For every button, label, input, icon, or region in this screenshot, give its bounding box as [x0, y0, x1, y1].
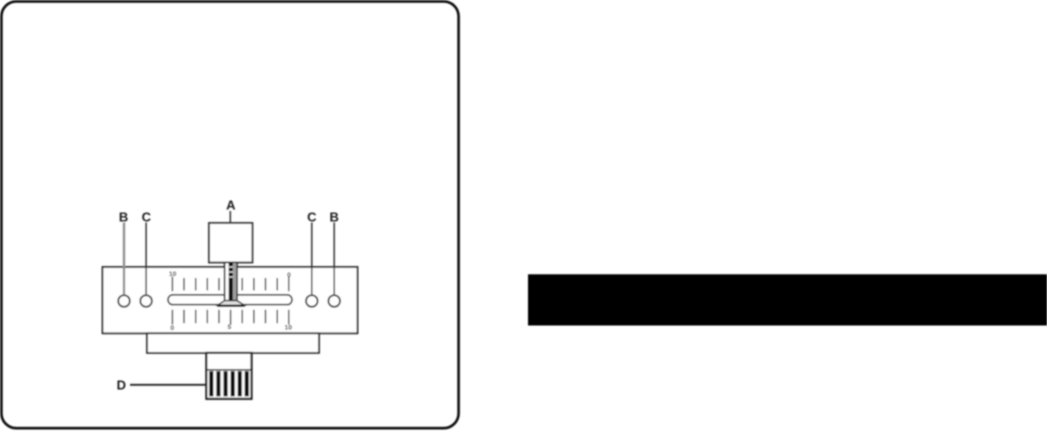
svg-text:0: 0 — [287, 272, 291, 279]
svg-text:C: C — [307, 209, 317, 224]
svg-text:10: 10 — [285, 324, 293, 331]
svg-text:A: A — [226, 198, 236, 213]
svg-text:B: B — [330, 209, 339, 224]
svg-text:C: C — [142, 209, 152, 224]
svg-text:10: 10 — [169, 271, 177, 278]
svg-text:B: B — [119, 209, 128, 224]
svg-text:0: 0 — [170, 325, 174, 332]
svg-text:5: 5 — [228, 324, 232, 331]
svg-text:D: D — [117, 377, 126, 392]
